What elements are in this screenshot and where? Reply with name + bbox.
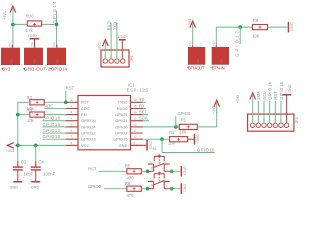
wire GPIO14 down to pad: [56, 11, 58, 48]
wire 3V3 down to pad: [12, 24, 14, 47]
pin 9 GND (right): [119, 141, 143, 148]
wire 3V3 horizontal: [13, 23, 57, 25]
wire R6 to S2: [141, 188, 148, 190]
wire GPIO0 to R6: [104, 188, 127, 190]
svg-text:GPIO14: GPIO14: [43, 122, 61, 127]
ground GND under C3: [10, 181, 23, 189]
svg-text:BTN-IN: BTN-IN: [212, 65, 225, 70]
resistor R10: [25, 14, 42, 33]
svg-text:GPIO2: GPIO2: [115, 130, 128, 135]
supply +3V3 arrow left: [6, 143, 15, 153]
wire 3V3 vertical: [17, 102, 19, 167]
wire RX: [131, 107, 147, 109]
svg-text:R4: R4: [27, 107, 33, 112]
wire S2 to GND: [170, 188, 181, 190]
svg-text:9: 9: [133, 141, 135, 145]
wire GPIO0 pin12 to R1: [131, 126, 180, 128]
svg-text:8: 8: [71, 141, 73, 145]
svg-text:RXD0: RXD0: [117, 106, 129, 111]
svg-text:4: 4: [71, 116, 73, 120]
wire GPIO15 branch down: [161, 139, 163, 152]
resistor R4: [27, 107, 45, 122]
supply +3V3 arrow over BTN-OUT: [188, 19, 195, 45]
junction dot rail/C4: [34, 144, 38, 148]
junction dot S2 left: [146, 187, 150, 191]
wire RST to R5: [99, 170, 127, 172]
capacitor C3: [13, 159, 34, 181]
wire GPIO12 stub down: [239, 27, 241, 44]
svg-text:13: 13: [133, 116, 137, 120]
svg-text:GPIO12: GPIO12: [235, 31, 240, 57]
svg-text:P$1: P$1: [52, 41, 56, 46]
svg-text:R6: R6: [125, 181, 131, 186]
pad BTN-IN: [211, 41, 230, 71]
wire R4 to EN pin3: [44, 114, 78, 116]
svg-text:GND: GND: [28, 34, 37, 38]
ground GND right of R9 (rotated): [288, 22, 294, 33]
junction dot R4/3V3: [16, 113, 20, 117]
resistor R5: [125, 164, 142, 181]
junction dot S1 left: [146, 170, 150, 174]
wire R9 to GND: [268, 26, 288, 28]
svg-text:6: 6: [71, 129, 73, 133]
svg-text:GPIO14: GPIO14: [51, 67, 68, 72]
wire TX: [131, 101, 147, 103]
svg-text:P$1: P$1: [30, 41, 34, 46]
svg-text:RXD: RXD: [107, 21, 112, 30]
resistor R6: [125, 181, 142, 198]
ground GND right of R2 (rotated): [188, 134, 200, 145]
svg-text:11: 11: [133, 129, 136, 133]
pad 3V3: [1, 41, 20, 71]
svg-text:TXD: TXD: [113, 22, 118, 30]
svg-text:RST: RST: [273, 91, 278, 100]
svg-text:GPIO5: GPIO5: [115, 112, 128, 117]
svg-text:12: 12: [133, 122, 137, 126]
pin 2 ADC (left): [66, 104, 90, 111]
wire GPIO15 JP2: [280, 101, 282, 124]
supply +3V3 arrow JP1 pin1: [97, 40, 108, 60]
wire VCC rail pin8: [15, 144, 79, 146]
svg-text:10k: 10k: [168, 140, 176, 145]
svg-text:3: 3: [71, 110, 73, 114]
wire TXD: [116, 23, 118, 60]
svg-text:R2: R2: [169, 130, 175, 135]
svg-text:+3V3: +3V3: [6, 149, 15, 153]
pin 5 GPIO14 (left): [66, 122, 97, 129]
svg-text:R10: R10: [26, 14, 34, 19]
svg-text:GPIO15: GPIO15: [197, 147, 215, 152]
svg-text:2: 2: [166, 167, 168, 171]
svg-text:1: 1: [71, 98, 73, 102]
svg-text:10k: 10k: [252, 33, 260, 38]
svg-text:7: 7: [71, 135, 73, 139]
junction dot: [11, 23, 15, 27]
svg-text:RST: RST: [66, 85, 75, 90]
ground GND right of S2 (rotated): [181, 183, 187, 194]
svg-text:GPIO0: GPIO0: [178, 111, 191, 116]
wire RST pin1: [44, 101, 78, 103]
svg-text:BTN-OUT: BTN-OUT: [188, 65, 205, 70]
pin 12 GPIO0 (right): [115, 122, 143, 129]
wire R1 to arrow: [197, 126, 216, 128]
svg-text:SCL: SCL: [139, 109, 148, 114]
svg-text:JP2: JP2: [295, 117, 299, 123]
supply +3V3 arrow JP2 pin1: [236, 93, 256, 124]
wire SDA: [131, 120, 150, 122]
pin 10 GPIO15 (right): [113, 135, 143, 142]
svg-text:TXD0: TXD0: [117, 100, 128, 105]
wire R3 to 3V3 vertical: [18, 101, 30, 103]
wire GPIO15 pin10 to R2: [131, 138, 170, 140]
wire GPIO16 JP2: [269, 101, 271, 124]
svg-text:GND: GND: [183, 166, 187, 175]
svg-text:C4: C4: [39, 159, 45, 164]
svg-text:P$1: P$1: [196, 58, 200, 63]
svg-text:+3V3: +3V3: [97, 42, 101, 51]
svg-text:16: 16: [133, 98, 137, 102]
svg-text:5: 5: [71, 122, 73, 126]
svg-text:P$1: P$1: [188, 41, 192, 46]
svg-text:14: 14: [133, 110, 137, 114]
svg-text:GPIO16: GPIO16: [43, 116, 61, 121]
svg-text:4: 4: [151, 184, 153, 188]
wire GPIO16 pin4: [43, 120, 79, 122]
pin 8 VCC (left): [66, 141, 90, 148]
wire SDA JP2: [257, 101, 259, 124]
svg-text:P$1: P$1: [10, 58, 14, 63]
junction dot GPIO0: [174, 125, 178, 129]
svg-text:R3: R3: [27, 95, 33, 100]
svg-text:2: 2: [71, 104, 73, 108]
svg-text:GND: GND: [10, 185, 19, 189]
connector JP1: [101, 50, 134, 67]
svg-text:470: 470: [127, 193, 135, 198]
svg-text:+3V3: +3V3: [3, 11, 7, 20]
svg-text:C3: C3: [21, 159, 27, 164]
pin 6 GPIO12 (left): [66, 129, 97, 136]
svg-text:SCL: SCL: [262, 91, 267, 100]
svg-text:GND-OUT-2: GND-OUT-2: [24, 67, 51, 72]
svg-text:GND: GND: [196, 134, 200, 143]
capacitor C4: [31, 159, 56, 181]
pin 16 TXD0 (right): [117, 98, 143, 105]
wire SCL JP2: [263, 101, 265, 124]
svg-text:VCC: VCC: [81, 143, 90, 148]
svg-text:JP1: JP1: [130, 55, 134, 61]
svg-text:100nF: 100nF: [43, 172, 55, 177]
svg-text:GPIO15: GPIO15: [113, 137, 128, 142]
svg-text:R5: R5: [125, 164, 131, 169]
junction dot RST: [64, 101, 68, 105]
wire GPIO13 pin7: [43, 138, 79, 140]
supply +3V3 arrow right: [212, 100, 220, 114]
svg-text:4.7k: 4.7k: [25, 28, 34, 33]
svg-text:ADC: ADC: [45, 103, 54, 108]
svg-text:+3V3: +3V3: [188, 19, 192, 28]
svg-text:GPIO4: GPIO4: [115, 118, 128, 123]
svg-text:TX: TX: [139, 97, 145, 102]
pin 1 RST (left): [66, 98, 90, 105]
supply +3V3 arrow top-left: [3, 6, 16, 24]
junction dot: [238, 25, 242, 29]
svg-text:R1: R1: [181, 118, 187, 123]
wire S1 to GND: [170, 170, 181, 172]
wire RST label stub: [65, 91, 67, 103]
svg-text:10k: 10k: [180, 129, 188, 134]
resistor R2: [168, 130, 187, 146]
svg-text:P$1: P$1: [33, 58, 37, 63]
svg-text:470: 470: [127, 176, 135, 181]
svg-text:GPIO0: GPIO0: [88, 184, 101, 189]
svg-text:P$1: P$1: [56, 58, 60, 63]
svg-text:GPIO16: GPIO16: [268, 81, 273, 100]
svg-text:ESP-12S: ESP-12S: [127, 87, 149, 92]
ground GND JP2 pin7: [282, 84, 292, 123]
svg-text:SDA: SDA: [139, 116, 148, 121]
wire ADC pin2: [45, 107, 79, 109]
svg-text:10: 10: [133, 135, 137, 139]
op-amp ic box IC1: [78, 96, 131, 150]
wire BTN-IN to R9: [216, 26, 252, 28]
svg-text:2: 2: [166, 184, 168, 188]
svg-text:GPIO13: GPIO13: [81, 137, 96, 142]
junction dot S1 right: [170, 170, 174, 174]
svg-text:+3V3: +3V3: [212, 106, 216, 115]
pad GPIO14: [47, 41, 68, 71]
svg-text:10k: 10k: [27, 118, 35, 123]
resistor origin crosses: [33, 23, 36, 26]
svg-text:EN: EN: [81, 112, 87, 117]
wire GPIO14 pin5: [43, 126, 79, 128]
wire SCL: [131, 114, 149, 116]
pin 15 RXD0 (right): [117, 104, 143, 111]
wire GPIO12 pin6: [43, 132, 79, 134]
pin 3 EN (left): [66, 110, 87, 117]
wire GPIO0 label stub: [175, 116, 177, 127]
pad BTN-OUT: [187, 41, 206, 71]
svg-text:GPIO12: GPIO12: [81, 130, 96, 135]
svg-text:10uF: 10uF: [24, 172, 34, 177]
pin 13 GPIO4 (right): [115, 116, 143, 123]
wire R5 to S1: [141, 170, 148, 172]
pin 11 GPIO2 (right): [115, 129, 143, 136]
junction dot rail/R divider: [16, 144, 20, 148]
svg-text:ADC: ADC: [81, 106, 90, 111]
svg-text:P$1: P$1: [212, 41, 216, 46]
switch S1: [148, 156, 170, 171]
ground GND JP1 pin4: [118, 35, 127, 59]
svg-text:P$1: P$1: [220, 58, 224, 63]
svg-text:GND: GND: [119, 143, 128, 148]
pad GND-OUT-2: [24, 41, 51, 71]
svg-text:RST: RST: [88, 166, 97, 171]
resistor R9: [252, 18, 267, 39]
svg-text:15: 15: [133, 104, 137, 108]
svg-text:GPIO0: GPIO0: [115, 124, 128, 129]
svg-text:GPIO13: GPIO13: [43, 134, 61, 139]
svg-text:GPIO16: GPIO16: [81, 118, 96, 123]
wire RXD: [110, 23, 112, 60]
svg-text:S2: S2: [152, 164, 157, 168]
resistor R1: [179, 118, 197, 135]
ground GND right of S1 (rotated): [181, 166, 187, 177]
svg-text:R9: R9: [253, 18, 259, 23]
svg-text:3V3: 3V3: [3, 67, 11, 72]
ground GND pin9 (rotated): [131, 140, 153, 151]
svg-text:RX: RX: [139, 103, 145, 108]
junction dot GPIO15: [160, 137, 164, 141]
svg-text:P$1: P$1: [8, 41, 12, 46]
svg-text:SDA: SDA: [256, 91, 261, 100]
wire GPIO15 branch right: [162, 152, 215, 154]
pin 14 GPIO5 (right): [115, 110, 143, 117]
wire R4 to 3V3 vertical: [18, 114, 30, 116]
svg-text:GND: GND: [288, 84, 292, 93]
wire BTN-IN up: [215, 27, 217, 45]
resistor R3: [27, 95, 45, 111]
switch S2: [148, 174, 170, 189]
svg-text:GND: GND: [183, 184, 187, 193]
wire RST JP2: [274, 101, 276, 124]
pin 4 GPIO16 (left): [66, 116, 97, 123]
svg-text:GPIO14: GPIO14: [81, 124, 96, 129]
junction dot S2 right: [170, 187, 174, 191]
ground GND under R10: [28, 34, 39, 48]
svg-text:GPIO12: GPIO12: [43, 128, 61, 133]
wire C4 stem: [35, 145, 37, 167]
svg-text:GND: GND: [31, 185, 40, 189]
svg-text:GND: GND: [290, 22, 294, 31]
svg-text:S1: S1: [152, 147, 157, 151]
svg-text:GPIO15: GPIO15: [279, 81, 284, 100]
svg-text:RST: RST: [81, 100, 90, 105]
ground GND under C4: [31, 181, 41, 189]
svg-text:+3V3: +3V3: [236, 95, 240, 104]
pin 7 GPIO13 (left): [66, 135, 97, 142]
svg-text:GND: GND: [118, 35, 127, 39]
